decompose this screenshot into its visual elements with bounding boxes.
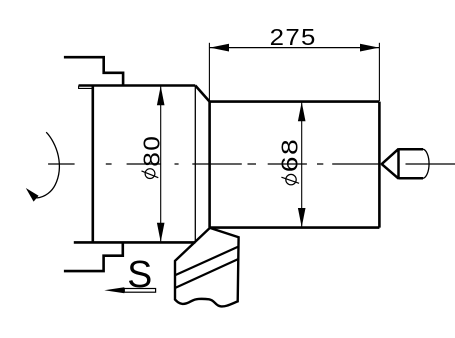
rotation arrowhead [26, 188, 39, 202]
dimension Ø80 bottom arrowhead [157, 223, 165, 242]
dimension 275 right arrowhead [360, 44, 379, 52]
dimension 275 line [209, 47, 379, 49]
phi symbol of Ø80 [145, 169, 155, 179]
cutting tool insert line upper [175, 247, 238, 275]
feed arrow head [104, 287, 124, 293]
tailstock center cap arc [423, 149, 429, 178]
chuck top jaw [64, 57, 123, 85]
dimension 275 left extension line [208, 43, 210, 101]
workpiece Ø80 section left edge [92, 86, 95, 243]
shoulder face vertical [208, 102, 211, 228]
feed arrow shaft [124, 289, 155, 293]
centerline axis [48, 163, 455, 165]
dimension Ø68 line [301, 102, 303, 228]
chuck bottom jaw [64, 242, 123, 271]
cutting tool outline [175, 228, 239, 307]
workpiece Ø80 section top edge [79, 84, 196, 87]
workpiece Ø68 section bottom edge [210, 226, 380, 229]
chamfer cone top diagonal [195, 86, 209, 102]
workpiece Ø80 section bottom edge [74, 241, 196, 244]
workpiece Ø68 section right edge [378, 102, 381, 228]
phi symbol of Ø68 [286, 174, 296, 184]
cutting tool insert line lower [175, 259, 238, 288]
chamfer edge circle line [194, 86, 196, 243]
dimension Ø68 top arrowhead [298, 102, 306, 121]
svg-text:275: 275 [270, 24, 317, 50]
dimension Ø68 bottom arrowhead [298, 208, 306, 227]
rotation arrow arc [37, 132, 60, 198]
dimension Ø80 top arrowhead [157, 86, 165, 105]
svg-text:68: 68 [277, 138, 303, 172]
tailstock center body [399, 149, 424, 178]
workpiece Ø68 section top edge [210, 100, 380, 103]
dimension Ø80 line [160, 86, 162, 243]
svg-text:80: 80 [138, 135, 164, 167]
tailstock center cone [382, 148, 399, 179]
dimension 275 right extension line [378, 43, 380, 101]
dimension 275 left arrowhead [210, 44, 229, 52]
chuck top jaw pad [79, 86, 94, 89]
